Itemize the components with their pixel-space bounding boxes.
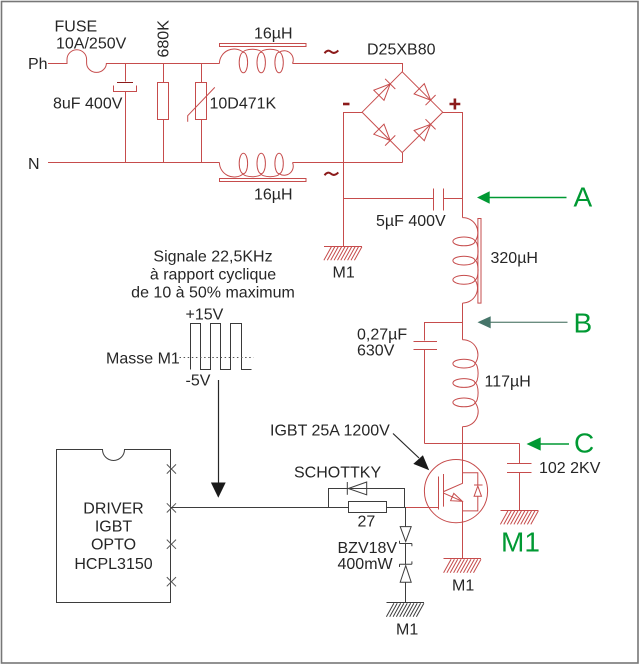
U1 text labels <box>74 501 152 574</box>
svg-text:D25XB80: D25XB80 <box>367 42 436 59</box>
capacitor C1 8uF 400V <box>114 64 137 164</box>
bridge plus symbol <box>450 99 461 110</box>
node A arrow <box>477 191 567 203</box>
svg-text:5µF 400V: 5µF 400V <box>376 213 446 230</box>
svg-text:de 10 à 50% maximum: de 10 à 50% maximum <box>131 285 295 302</box>
svg-text:N: N <box>28 156 40 173</box>
inductor L3 320uH <box>453 218 481 304</box>
wire Ph bus <box>125 63 220 65</box>
svg-text:M1: M1 <box>452 578 474 595</box>
wire signal to driver arrow <box>211 380 226 498</box>
svg-text:B: B <box>574 307 593 338</box>
label arrow to Q1 <box>393 434 429 471</box>
svg-text:IGBT: IGBT <box>95 519 133 536</box>
wire bottom node C bus <box>425 427 520 484</box>
bridge rectifier D25XB80 <box>362 72 443 153</box>
svg-text:SCHOTTKY: SCHOTTKY <box>294 464 381 481</box>
waveform square wave <box>191 324 252 370</box>
diode D6 schottky <box>329 482 405 508</box>
svg-text:117µH: 117µH <box>485 373 531 390</box>
svg-text:M1: M1 <box>396 621 418 638</box>
AC2 tilde symbol <box>325 172 339 175</box>
wire gate drive <box>171 507 349 509</box>
svg-text:C: C <box>574 428 594 459</box>
signal description text <box>131 249 295 302</box>
inductor L1 16uH top choke <box>219 44 306 73</box>
svg-text:M1: M1 <box>333 265 355 282</box>
op-amp U1 driver HCPL3150 <box>57 450 171 603</box>
node C arrow <box>527 437 570 450</box>
svg-text:400mW: 400mW <box>338 556 394 573</box>
wire AC2 to bridge <box>293 153 403 163</box>
ground M1 zener <box>386 603 424 617</box>
svg-text:8uF 400V: 8uF 400V <box>53 96 123 113</box>
svg-text:Masse M1: Masse M1 <box>106 351 180 368</box>
svg-text:A: A <box>574 182 593 213</box>
transistor Q1 IGBT <box>406 444 488 559</box>
fuse F1 <box>48 50 125 73</box>
svg-text:680K: 680K <box>156 20 173 58</box>
svg-text:10D471K: 10D471K <box>210 96 277 113</box>
svg-text:HCPL3150: HCPL3150 <box>74 556 152 573</box>
svg-text:16µH: 16µH <box>254 26 293 43</box>
svg-text:M1: M1 <box>501 527 540 558</box>
inductor L2 16uH bottom choke <box>219 153 306 181</box>
svg-text:IGBT 25A 1200V: IGBT 25A 1200V <box>270 423 390 440</box>
svg-text:BZV18V: BZV18V <box>338 540 398 557</box>
wire N bus <box>48 162 220 164</box>
svg-text:630V: 630V <box>357 342 395 359</box>
svg-text:320µH: 320µH <box>491 250 538 267</box>
svg-text:-5V: -5V <box>186 373 211 390</box>
ground M1 emitter <box>444 559 482 573</box>
svg-text:10A/250V: 10A/250V <box>56 36 127 53</box>
svg-text:FUSE: FUSE <box>55 19 98 36</box>
svg-text:16µH: 16µH <box>254 187 293 204</box>
U1 pin x marks <box>167 464 176 586</box>
wire bridge minus rail <box>344 113 363 247</box>
svg-text:à rapport cyclique: à rapport cyclique <box>150 267 276 284</box>
node B arrow <box>478 316 568 328</box>
varistor RV1 10D471K <box>188 64 215 164</box>
wire R2 to gate <box>387 507 407 509</box>
inductor L4 117uH <box>453 340 478 427</box>
svg-text:102 2KV: 102 2KV <box>539 460 601 477</box>
svg-text:DRIVER: DRIVER <box>83 501 143 518</box>
svg-text:0,27µF: 0,27µF <box>357 327 407 344</box>
AC1 tilde symbol <box>325 50 339 53</box>
diode D5 freewheel in Q1 <box>463 473 483 511</box>
resistor R1 680K <box>158 64 169 164</box>
waveform zero dotted line <box>180 357 254 359</box>
wire rail between L3 and node B <box>462 303 464 340</box>
svg-text:+15V: +15V <box>186 307 224 324</box>
capacitor C4 102 2KV <box>507 444 532 511</box>
capacitor C2 5uF 400V <box>344 189 463 211</box>
diode D7 zener BZV18V <box>400 508 412 547</box>
capacitor C3 0,27uF 630V <box>414 323 463 444</box>
ground M1 bridge <box>324 247 362 261</box>
ground M1 snubber <box>500 511 538 525</box>
svg-text:OPTO: OPTO <box>91 537 136 554</box>
svg-text:27: 27 <box>358 513 376 530</box>
diode D8 zener <box>400 544 412 603</box>
svg-text:Signale 22,5KHz: Signale 22,5KHz <box>153 249 272 266</box>
wire bridge plus to rail <box>443 113 463 218</box>
svg-text:Ph: Ph <box>28 56 48 73</box>
resistor R2 27 <box>349 502 387 513</box>
wire AC1 to bridge <box>293 64 403 72</box>
bridge minus symbol <box>343 103 350 106</box>
